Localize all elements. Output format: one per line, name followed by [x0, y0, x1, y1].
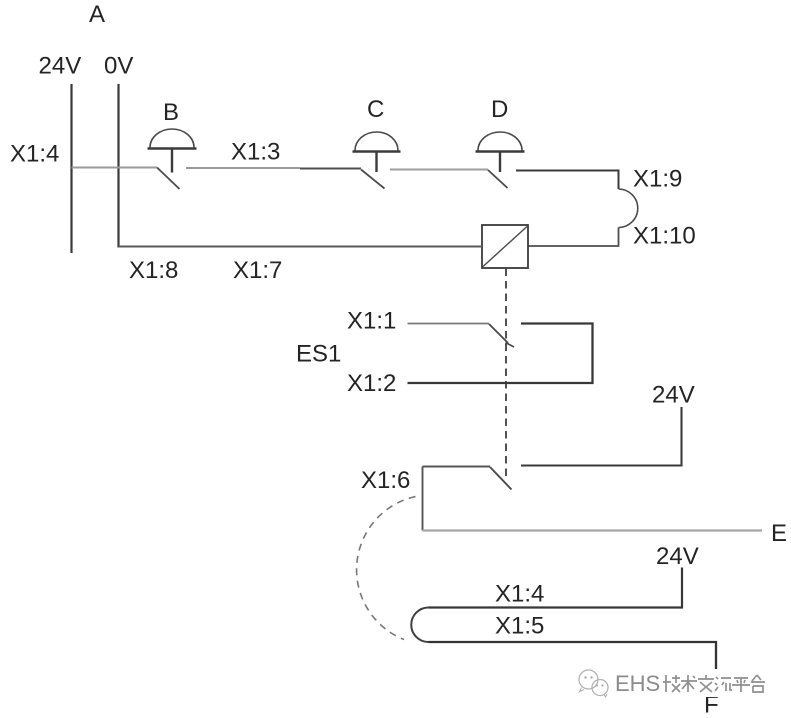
svg-text:X1:10: X1:10 [633, 223, 696, 250]
svg-text:D: D [491, 96, 508, 123]
svg-text:X1:5: X1:5 [495, 613, 544, 640]
svg-text:X1:4: X1:4 [10, 141, 59, 168]
svg-text:24V: 24V [652, 382, 695, 409]
svg-text:24V: 24V [656, 543, 699, 570]
svg-text:X1:2: X1:2 [347, 370, 396, 397]
svg-text:E: E [771, 520, 787, 547]
svg-text:X1:6: X1:6 [361, 467, 410, 494]
svg-text:X1:4: X1:4 [495, 581, 544, 608]
svg-text:B: B [163, 99, 179, 126]
svg-text:EHS: EHS [615, 671, 660, 696]
svg-text:24V: 24V [39, 53, 82, 80]
svg-text:ES1: ES1 [296, 341, 341, 368]
svg-text:X1:3: X1:3 [231, 139, 280, 166]
svg-text:X1:9: X1:9 [633, 166, 682, 193]
svg-text:X1:7: X1:7 [233, 257, 282, 284]
svg-text:X1:8: X1:8 [129, 257, 178, 284]
svg-text:0V: 0V [104, 53, 133, 80]
svg-text:X1:1: X1:1 [347, 308, 396, 335]
svg-text:A: A [89, 1, 105, 28]
svg-text:C: C [367, 96, 384, 123]
